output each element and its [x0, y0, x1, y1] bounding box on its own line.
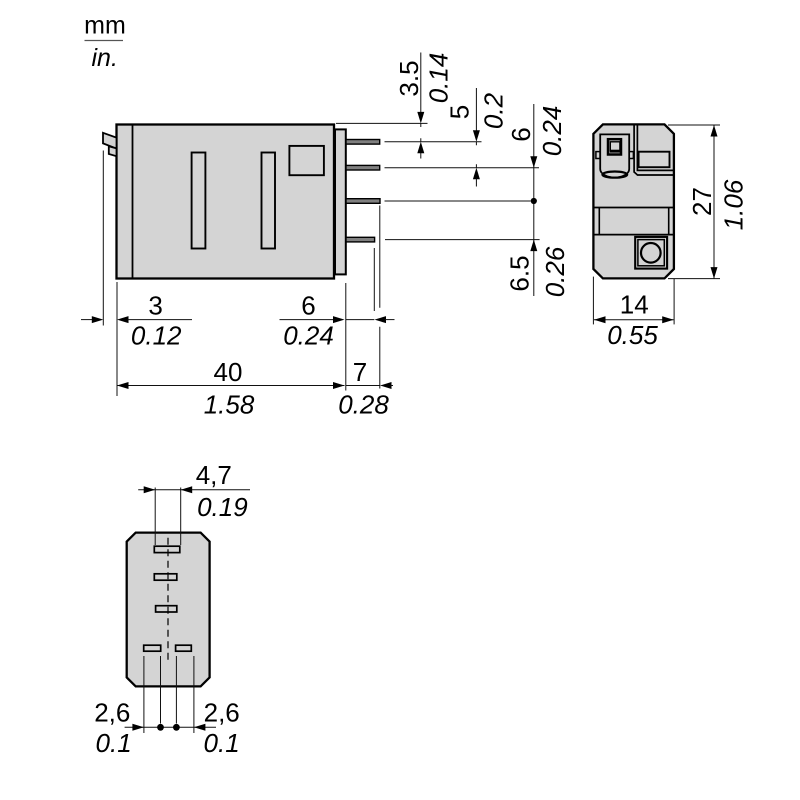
end view: band bottom line	[593, 234, 674, 236]
dimension 6/0.24 vertical	[506, 104, 567, 296]
svg-text:in.: in.	[91, 44, 117, 72]
extension line: slot1 right	[180, 488, 182, 546]
side view: pin 4	[346, 237, 375, 242]
extension line: pin B	[175, 656, 177, 724]
svg-text:0.55: 0.55	[607, 320, 658, 350]
bottom view: slot 2	[154, 574, 177, 580]
end view: socket square inner	[638, 240, 664, 266]
svg-text:40: 40	[214, 357, 243, 387]
extension line: end view top	[668, 124, 720, 126]
extension line: end view right vertical	[673, 279, 675, 325]
dimension 3/0.12	[81, 291, 192, 351]
svg-text:1.58: 1.58	[204, 390, 255, 420]
end view: latch screw inner	[610, 142, 620, 151]
bottom view: slot 4 right	[176, 645, 192, 651]
svg-text:0.2: 0.2	[479, 92, 509, 129]
end view: latch screw outer	[608, 139, 621, 154]
end view: socket circle	[641, 243, 661, 263]
bottom view: slot 1	[154, 546, 180, 552]
side view: front panel line	[132, 125, 134, 279]
side view: pin 1	[346, 140, 380, 145]
bottom view: slot 3	[156, 606, 177, 612]
extension line: pinrow far right	[193, 656, 195, 733]
svg-text:0.14: 0.14	[424, 53, 454, 104]
extension line: slot1 left	[154, 488, 156, 546]
side view: pin 2	[346, 165, 380, 170]
svg-text:4,7: 4,7	[196, 460, 232, 490]
dimension 5/0.2	[444, 88, 508, 187]
svg-text:6: 6	[506, 127, 536, 141]
extension line: latch tip vertical	[102, 151, 104, 326]
extension line: pin4 end vertical	[373, 248, 375, 311]
extension line: pin A	[160, 656, 162, 724]
extension line: end view left vertical	[592, 277, 594, 325]
end view: latch bottom ellipse	[602, 172, 627, 178]
side view: vent slot right	[262, 153, 276, 249]
extension line: body left vertical	[116, 282, 118, 396]
side view: latch clip upper	[103, 133, 117, 149]
unit label mm/in.	[84, 12, 126, 72]
svg-text:0.26: 0.26	[540, 246, 570, 297]
svg-text:14: 14	[620, 290, 649, 320]
end view: latch housing	[600, 134, 629, 177]
svg-text:1.06: 1.06	[719, 179, 749, 230]
svg-text:0.28: 0.28	[338, 390, 389, 420]
end view: relay body octagon	[593, 124, 674, 278]
extension line: pin ends vertical	[379, 206, 381, 389]
svg-text:mm: mm	[84, 12, 126, 40]
dimension 40/1.58	[117, 357, 345, 420]
extension line: end view bottom	[668, 278, 720, 280]
extension line: pinrow far left	[143, 656, 145, 733]
svg-text:6.5: 6.5	[504, 255, 534, 291]
svg-text:7: 7	[353, 357, 367, 387]
end view: band right edge	[668, 208, 670, 235]
svg-text:3.5: 3.5	[394, 60, 424, 96]
extension line: pin 3	[385, 200, 531, 202]
svg-text:0.24: 0.24	[283, 321, 334, 351]
svg-text:3: 3	[148, 291, 162, 321]
dimension 7/0.28	[338, 357, 393, 420]
dimension 2,6/0.1 left and right	[94, 698, 240, 759]
side view: socket flange	[335, 129, 346, 274]
svg-text:0.19: 0.19	[197, 492, 248, 522]
svg-text:5: 5	[444, 105, 474, 119]
svg-text:2,6: 2,6	[204, 698, 240, 728]
side view: pin 3	[346, 199, 380, 204]
end view: seam outer	[634, 124, 674, 175]
extension line: pin 1	[385, 141, 482, 143]
bottom view: center dashed line	[167, 538, 169, 661]
extension line: flange right vertical	[345, 283, 347, 391]
svg-text:0.12: 0.12	[131, 321, 182, 351]
side view: marking window	[289, 146, 324, 175]
end view: seam inner	[637, 124, 674, 170]
end view: latch tab left	[596, 152, 600, 159]
side view: relay body	[117, 125, 335, 279]
dimension 4,7/0.19	[138, 460, 250, 522]
extension line: pin 4	[385, 239, 540, 241]
svg-text:2,6: 2,6	[94, 698, 130, 728]
end view: label window	[639, 152, 670, 168]
end view: band left edge	[598, 208, 600, 235]
extension line: pin 2	[385, 167, 540, 169]
extension line: body top	[336, 122, 428, 124]
end view: band top line	[593, 207, 674, 209]
dimension 6.5/0.26 labels	[504, 246, 570, 297]
dimension 27/1.06	[687, 125, 749, 279]
bottom view: slot 4 left	[144, 645, 161, 651]
dimension 6/0.24 horizontal	[280, 291, 395, 351]
end view: latch tab right	[629, 152, 633, 159]
svg-text:6: 6	[301, 291, 315, 321]
dimension 14/0.55	[594, 290, 674, 350]
side view: latch clip lower	[109, 146, 117, 156]
dimension 3.5/0.14	[394, 53, 454, 159]
svg-text:27: 27	[687, 187, 717, 216]
bottom view: relay base octagon	[127, 533, 210, 687]
side view: vent slot left	[192, 153, 206, 249]
svg-text:0.24: 0.24	[537, 106, 567, 157]
end view: socket square outer	[635, 237, 667, 269]
svg-text:0.1: 0.1	[96, 728, 132, 758]
svg-text:0.1: 0.1	[204, 728, 240, 758]
